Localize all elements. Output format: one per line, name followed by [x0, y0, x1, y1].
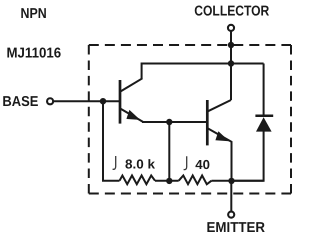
svg-text:8.0 k: 8.0 k	[125, 156, 156, 171]
svg-text:MJ11016: MJ11016	[7, 45, 62, 61]
svg-text:COLLECTOR: COLLECTOR	[194, 4, 270, 20]
svg-text:NPN: NPN	[21, 6, 47, 22]
svg-text:EMITTER: EMITTER	[207, 220, 266, 236]
svg-text:BASE: BASE	[2, 94, 38, 110]
svg-text:40: 40	[195, 157, 210, 172]
